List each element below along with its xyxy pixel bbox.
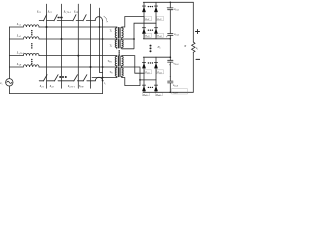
node busA-row1 (99, 26, 101, 28)
svg-text:+: + (166, 35, 168, 39)
wire secondary link2 (123, 23, 157, 49)
wire column 3 (77, 4, 79, 88)
wire bottom bus (39, 80, 95, 82)
svg-text:+: + (169, 75, 171, 79)
inductor Ls2 (23, 37, 39, 39)
node column2-row2 (61, 38, 63, 40)
wire secondary link4 (123, 67, 157, 86)
dots bridge2 bottom (148, 87, 153, 88)
svg-text:T1: T1 (110, 30, 113, 33)
switch S21 (43, 75, 47, 81)
wire secondary link3 (123, 56, 145, 74)
switch S2,N-1 (74, 75, 78, 81)
wire row 3 (9, 55, 117, 57)
wire bridge1 leg1 (143, 2, 145, 39)
diode D12 (154, 6, 158, 12)
svg-text:No: No (157, 45, 161, 50)
inductor Ls1 (23, 25, 39, 27)
svg-text:Do24: Do24 (155, 94, 160, 97)
svg-text:vCo3: vCo3 (174, 62, 180, 67)
diode D11 (142, 6, 146, 12)
wire bottom hop (95, 77, 102, 81)
diode D24 (154, 85, 158, 91)
diode D21 (142, 62, 146, 68)
dots bridge1 top (148, 6, 153, 7)
wire column 4 (90, 4, 92, 88)
dots top switch row (57, 17, 62, 19)
dots between rows 1-2 (31, 30, 33, 36)
node cap4-rail (169, 91, 171, 93)
label box D23 (142, 93, 149, 96)
svg-text:s21: s21 (40, 84, 44, 89)
label minus output (196, 58, 200, 60)
diode D14 (154, 27, 158, 33)
wire left bus (8, 27, 10, 94)
source vs (6, 79, 13, 86)
label box D21 (145, 70, 152, 74)
wire right bus bottom (192, 52, 194, 92)
svg-text:LsN: LsN (16, 62, 22, 67)
node sec2 (133, 38, 135, 40)
svg-text:vs: vs (0, 81, 2, 86)
wire row 1 (9, 26, 117, 28)
transformer T3 (115, 56, 123, 67)
svg-text:s1N: s1N (74, 9, 79, 14)
node cap3-rail (169, 56, 171, 58)
svg-text:vo: vo (196, 46, 198, 51)
wire T4 bottom stub (92, 77, 117, 79)
diode D13 (142, 27, 146, 33)
svg-text:s2N: s2N (79, 84, 84, 89)
wire row 2 (9, 38, 117, 40)
label plus output (195, 29, 199, 33)
svg-text:s2,N-1: s2,N-1 (68, 84, 75, 89)
switch S1N (83, 15, 86, 21)
wire column 2 (61, 4, 63, 88)
switch S12 (54, 15, 57, 21)
node cap2-rail (169, 38, 171, 40)
svg-text:Do14: Do14 (156, 35, 161, 38)
wire bus B (102, 20, 104, 93)
svg-text:ip: ip (106, 20, 108, 24)
svg-text:vCo1: vCo1 (174, 7, 179, 12)
diode D22 (154, 62, 158, 68)
node column1-row1 (46, 26, 48, 28)
dots between rows 2-3 (31, 43, 33, 49)
node column4-row4 (90, 66, 92, 68)
capacitor Co1 (168, 2, 173, 39)
label box D24 (155, 93, 162, 96)
wire column 1 (46, 4, 48, 88)
svg-text:+: + (166, 6, 168, 10)
switch S2N (83, 75, 87, 81)
svg-text:s11: s11 (37, 9, 41, 14)
node busB-bottombus (102, 80, 104, 82)
svg-text:T2: T2 (110, 45, 113, 49)
wire right bus top (192, 2, 194, 42)
wire bridge2 bottom rail (143, 91, 193, 93)
svg-text:Ls1: Ls1 (16, 22, 21, 27)
svg-text:s1,N-1: s1,N-1 (64, 9, 71, 14)
svg-text:Ls,N-1: Ls,N-1 (16, 51, 24, 56)
dots between bridges (150, 45, 152, 53)
node cap1-rail (169, 1, 171, 3)
switch S22 (54, 75, 58, 81)
svg-text:Do22: Do22 (156, 71, 161, 74)
node busB-T4bottom (102, 77, 104, 79)
wire bridge link (169, 39, 171, 57)
svg-text:Ls2: Ls2 (16, 34, 22, 39)
svg-text:TN-1: TN-1 (108, 60, 113, 64)
capacitor Co3 (168, 57, 173, 92)
dots between transformers (118, 50, 120, 56)
svg-text:Do12: Do12 (156, 18, 161, 21)
svg-text:vCo4: vCo4 (173, 83, 179, 88)
wire top hop (95, 17, 102, 21)
transformer T4 (115, 67, 123, 78)
svg-text:vCo2N: vCo2N (173, 91, 179, 94)
svg-text:N: N (183, 44, 187, 48)
dots bridge2 top (148, 62, 153, 63)
wire bridge2 leg2 (155, 57, 157, 92)
resistor Ro (192, 42, 195, 52)
wire bridge1 bottom rail (143, 38, 170, 40)
svg-text:Do11: Do11 (144, 18, 149, 21)
label box D22 (157, 70, 164, 74)
svg-text:Do13: Do13 (144, 35, 149, 38)
wire top bus (39, 20, 95, 22)
wire bridge2 top rail (143, 56, 170, 58)
transformer T2 (115, 39, 123, 49)
svg-text:s12: s12 (48, 9, 53, 14)
svg-text:Do21: Do21 (144, 71, 149, 74)
svg-text:Do23: Do23 (142, 94, 147, 97)
wire bridge2 leg1 (143, 57, 145, 92)
wire row 4 (9, 66, 117, 68)
svg-text:vCo2: vCo2 (174, 32, 180, 37)
dots bottom switch row (59, 76, 67, 78)
label box D14 (157, 33, 164, 37)
node busB-row4 (102, 66, 104, 68)
switch S11 (44, 15, 47, 21)
transformer T1 (115, 27, 123, 39)
inductor Ls4 (23, 65, 39, 67)
wire bridge1 leg2 (155, 2, 157, 39)
wire bridge1 top rail (143, 1, 193, 3)
switch S1,N-1 (73, 15, 76, 21)
node sec4 (139, 79, 141, 81)
dots between rows 3-4 (31, 59, 33, 65)
label box D13 (145, 33, 152, 37)
svg-text:s22: s22 (50, 84, 55, 89)
wire bottom rail (9, 93, 102, 95)
label box vCo2N (172, 89, 188, 94)
label box D11 (145, 17, 152, 21)
svg-text:+: + (169, 63, 171, 67)
dots bridge1 bottom (148, 30, 153, 31)
svg-text:TN: TN (110, 71, 114, 75)
label ip arrow (104, 16, 107, 19)
node busB-row2 (102, 38, 104, 40)
diode D23 (142, 85, 146, 91)
label box D12 (157, 17, 164, 21)
node column3-row3 (77, 55, 79, 57)
inductor Ls3 (23, 53, 39, 55)
svg-text:is: is (104, 82, 106, 86)
wire secondary link1 (123, 17, 145, 28)
wire bus A (100, 8, 103, 72)
